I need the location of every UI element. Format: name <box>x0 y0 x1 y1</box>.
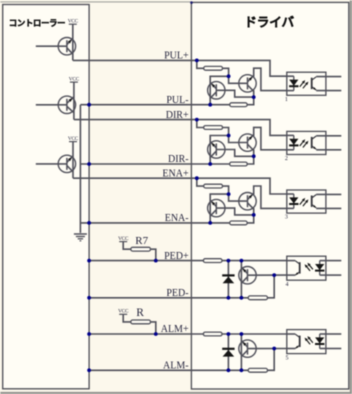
resistor R2b <box>230 162 248 166</box>
VCC symbol for R7 <box>118 236 129 242</box>
wire Q3a base to emitter node <box>216 208 253 215</box>
svg-text:3: 3 <box>285 215 288 221</box>
optocoupler U5 <box>286 330 342 362</box>
transistor Q2a <box>208 141 225 158</box>
screenshot right border <box>350 0 352 394</box>
wire Q4c base to opto <box>248 274 287 276</box>
diode D5 <box>222 349 234 357</box>
wire PED+ line right <box>222 260 287 262</box>
wire PED- line <box>89 297 248 299</box>
junction dots ENA circuit <box>87 176 255 225</box>
wire VCC to R7 <box>123 242 131 250</box>
wire node X2 to Q2a rail <box>210 136 228 165</box>
svg-text:R: R <box>136 307 144 319</box>
screenshot top border <box>0 1 191 3</box>
wire Q3b emitter <box>247 208 254 223</box>
wire R1a to node X1 <box>223 68 229 76</box>
svg-text:VCC: VCC <box>118 309 129 315</box>
wire minus bus <box>79 105 81 233</box>
svg-text:2: 2 <box>285 156 288 162</box>
wire node X3 to Q3b base <box>229 194 248 201</box>
wire base node to R4d <box>268 275 275 298</box>
wire R2a to node X2 <box>223 128 229 136</box>
resistor R5c <box>203 332 222 336</box>
transistor Q3 <box>36 155 76 172</box>
net label DIR- <box>168 154 189 165</box>
wire PUL- segment <box>80 104 229 106</box>
resistor R4d <box>248 296 267 300</box>
label R7 <box>135 235 148 247</box>
wire node X1 to Q1b base <box>229 76 248 83</box>
svg-text:4: 4 <box>286 282 289 288</box>
transistor Q1a <box>208 82 225 99</box>
wire node X1 to Q1a rail <box>210 76 228 104</box>
optocoupler U4 <box>286 256 342 288</box>
VCC symbol for Q1 <box>68 19 79 25</box>
svg-text:コントローラー: コントローラー <box>9 18 65 28</box>
wire Q1b collector to opto 1 cathode <box>254 68 287 90</box>
resistor R7 <box>131 247 151 251</box>
svg-text:VCC: VCC <box>69 77 80 83</box>
wire VCC to Q3 collector rail <box>72 142 74 179</box>
svg-text:ドライバ: ドライバ <box>244 16 294 30</box>
net label ALM- <box>163 361 189 372</box>
label driver <box>244 16 294 30</box>
wire base node to R5d <box>268 349 275 371</box>
optocoupler U1 <box>285 72 341 103</box>
diode D5 rail <box>227 334 229 370</box>
net label ENA- <box>165 213 189 224</box>
wire Q2a base to emitter node <box>216 150 253 157</box>
svg-text:PUL-: PUL- <box>166 95 188 106</box>
net label PUL+ <box>164 51 189 62</box>
net label ALM+ <box>161 324 189 335</box>
VCC symbol for Q2 <box>69 77 80 83</box>
svg-text:1: 1 <box>285 97 288 103</box>
driver box <box>191 2 348 389</box>
svg-text:R7: R7 <box>135 235 148 247</box>
wire Q2b collector to opto 2 cathode <box>254 127 287 149</box>
svg-text:DIR-: DIR- <box>168 154 189 165</box>
wire DIR- segment <box>80 163 229 165</box>
transistor Q1 <box>36 38 76 55</box>
resistor R3a <box>204 184 223 188</box>
wire ENA+ line <box>73 178 287 194</box>
junction dots PUL circuit <box>87 59 255 107</box>
transistor Q3a <box>208 199 225 216</box>
wire Q1a base to emitter node <box>216 90 253 97</box>
wire VCC to Q2 collector rail <box>73 82 75 120</box>
transistor Q4c <box>239 266 256 283</box>
wire node X3 to Q3a rail <box>210 194 228 223</box>
wire ALM- line <box>89 369 248 371</box>
wire PED+ line left <box>89 260 203 262</box>
resistor R5d <box>248 368 267 372</box>
wire DIR+ line <box>74 120 287 136</box>
net label PED+ <box>164 251 189 262</box>
net label DIR+ <box>166 110 189 121</box>
ground <box>74 234 87 241</box>
wire VCC to R <box>123 314 131 322</box>
driver box corner mark <box>190 1 193 4</box>
svg-text:VCC: VCC <box>118 236 129 242</box>
wire ALM+ line right <box>222 333 287 335</box>
resistor R3b <box>230 221 248 225</box>
resistor R <box>131 320 151 324</box>
net label ENA+ <box>162 168 189 179</box>
transistor Q3b <box>239 193 256 210</box>
net label PUL- <box>166 95 188 106</box>
wire PUL+ to R1a <box>197 60 204 68</box>
controller box <box>3 5 89 389</box>
VCC symbol for R <box>118 309 129 315</box>
wire R3a to node X3 <box>223 186 229 194</box>
wire ENA+ to R3a <box>197 178 204 186</box>
diode D4 rail <box>227 261 229 298</box>
wire VCC to Q1 collector rail <box>72 24 74 60</box>
resistor R1a <box>204 66 223 70</box>
resistor R1b <box>230 103 248 107</box>
junction dots DIR circuit <box>87 118 255 166</box>
resistor R4c <box>203 259 222 263</box>
diode D4 <box>222 275 234 283</box>
wire Q3b collector to opto 3 cathode <box>254 186 287 208</box>
wire R7 to PED+ <box>151 249 156 260</box>
wire Q5c base to opto <box>248 348 287 350</box>
transistor Q5c <box>239 340 256 357</box>
junction dots ALM circuit <box>87 332 276 372</box>
svg-text:VCC: VCC <box>68 136 79 142</box>
transistor Q1b <box>239 75 256 92</box>
wire ENA- segment <box>80 222 229 224</box>
VCC symbol for Q3 <box>68 136 79 142</box>
svg-text:VCC: VCC <box>68 19 79 25</box>
wire ALM+ line left <box>89 333 203 335</box>
optocoupler U3 <box>285 190 341 221</box>
wire PUL+ line <box>73 60 287 76</box>
transistor Q4c rail <box>240 261 242 298</box>
transistor Q2b <box>239 134 256 151</box>
wire R to ALM+ <box>151 322 156 334</box>
junction dots PED circuit <box>87 259 276 300</box>
svg-text:ENA-: ENA- <box>165 213 189 224</box>
optocoupler U2 <box>285 131 341 162</box>
wire Q2b emitter <box>247 149 254 164</box>
label R <box>136 307 144 319</box>
svg-text:5: 5 <box>286 355 289 361</box>
transistor Q2 <box>36 96 76 113</box>
transistor Q5c rail <box>240 334 242 370</box>
wire Q1b emitter <box>247 90 254 105</box>
wire node X2 to Q2b base <box>229 136 248 143</box>
label controller <box>9 18 65 28</box>
resistor R2a <box>204 126 223 130</box>
net label PED- <box>166 288 188 299</box>
wire DIR+ to R2a <box>197 120 204 128</box>
screenshot bottom border <box>0 392 352 394</box>
